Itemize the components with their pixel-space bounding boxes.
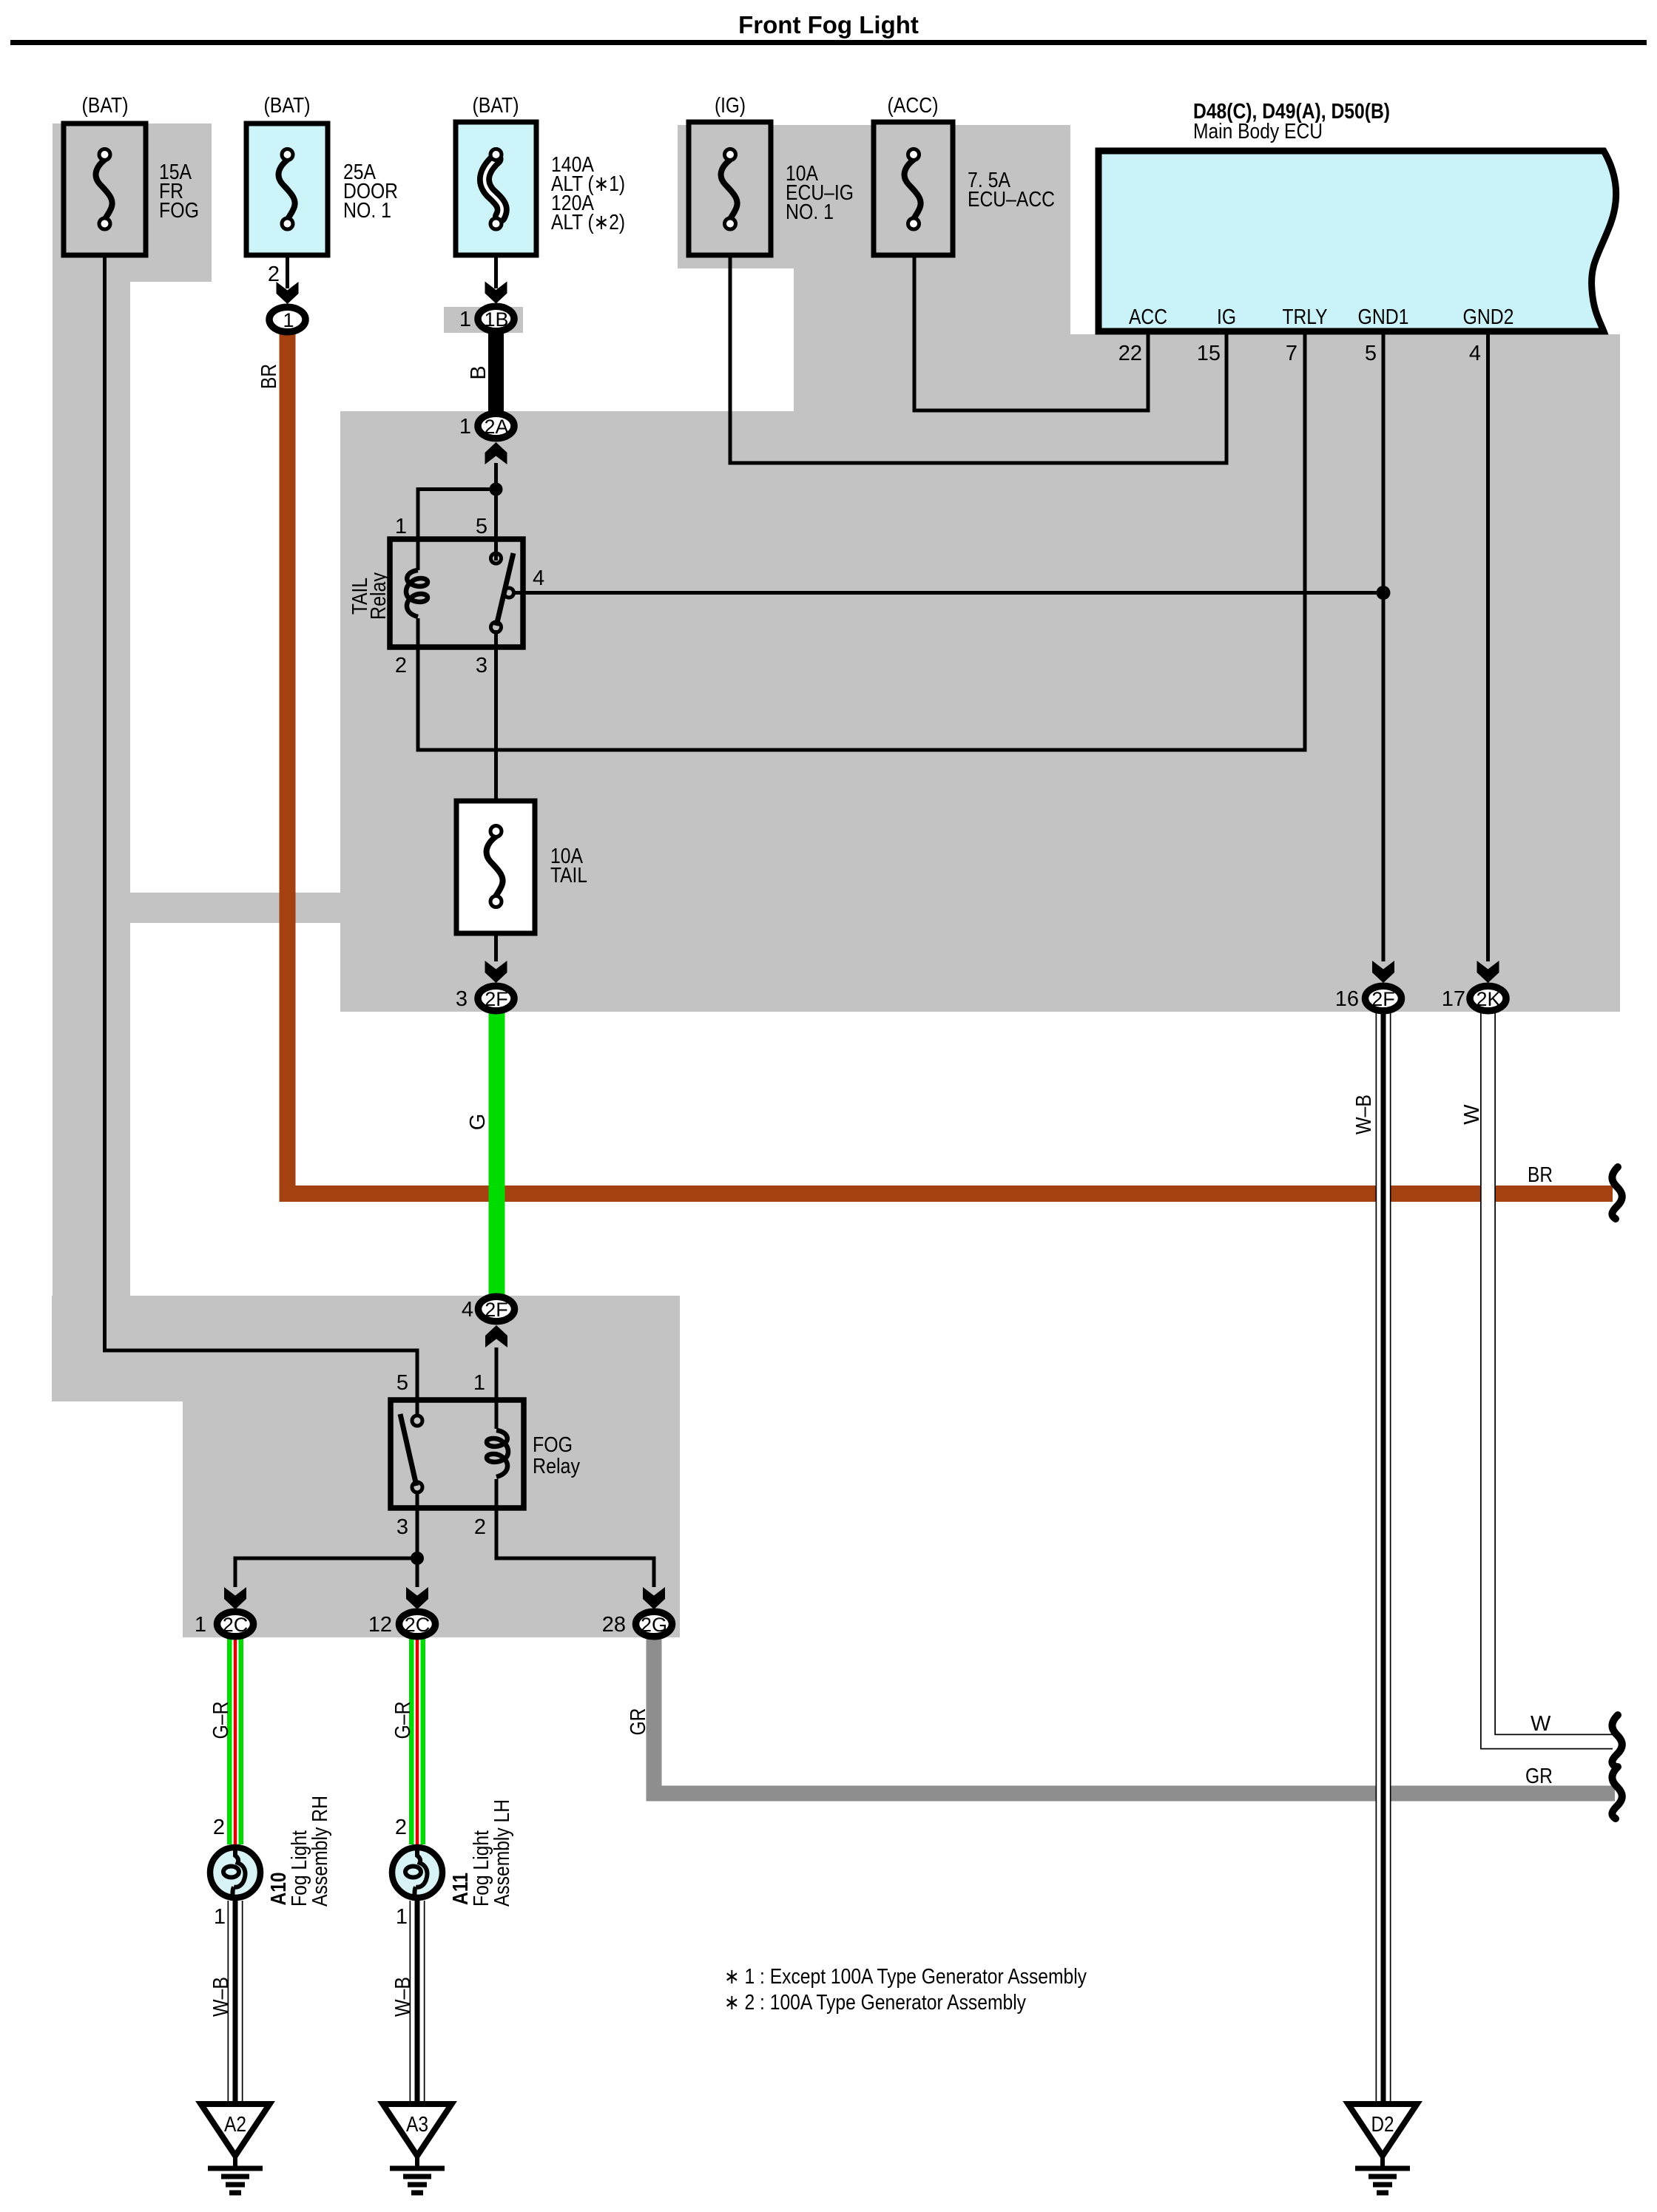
ground D2 [1349,2104,1417,2193]
svg-text:∗ 2 : 100A Type Generator Asse: ∗ 2 : 100A Type Generator Assembly [724,1991,1026,2015]
gray region: below notch right part [794,268,1070,411]
svg-text:(BAT): (BAT) [264,94,311,118]
svg-text:2F: 2F [485,1299,508,1321]
TAIL relay coil [406,570,428,617]
wire: 10A TAIL fuse to 3 2F [494,928,498,961]
title rule [10,40,1647,45]
fuse F4 10A ECU-IG NO.1 [689,94,854,255]
arrow out of connector 2A [485,442,507,464]
arrow into connector 16 2F [1372,961,1394,983]
svg-text:W–B: W–B [209,1977,233,2017]
svg-text:2C: 2C [405,1614,431,1636]
FOG relay switch blade [400,1414,416,1486]
wire B: 1B to 2A thick black [488,333,504,412]
wire: FOG relay pin3 to junction to 1 2C [235,1492,417,1587]
ground A3 [383,2104,452,2193]
svg-text:W: W [1531,1712,1551,1736]
svg-text:5: 5 [396,1371,408,1395]
svg-text:NO. 1: NO. 1 [786,200,834,224]
FOG relay switch contact top [412,1416,422,1426]
wire: TAIL relay pin4 to GND1 junction [513,591,1383,595]
svg-text:(BAT): (BAT) [473,94,519,118]
wire GR: 28 2G to right break [654,1638,1615,1793]
svg-text:GND2: GND2 [1463,305,1514,329]
svg-text:IG: IG [1217,305,1236,329]
svg-text:2C: 2C [223,1614,249,1636]
wire: TAIL relay pin2 to ECU TRLY pin7 [418,334,1305,750]
arrow into connector 1 [277,282,299,304]
wire W-B: fog light RH to ground A2 [228,1901,243,2104]
gray region: central relay block [340,411,1620,1012]
gray region: connector band left [130,893,340,923]
svg-text:12: 12 [368,1613,392,1637]
wire: ECU GND1 pin5 down to 16 2F [1382,334,1386,961]
svg-text:16: 16 [1335,987,1359,1011]
svg-text:22: 22 [1118,342,1142,365]
svg-text:BR: BR [257,364,281,389]
fuse F1 15A FR FOG [64,94,199,255]
gray band behind 1B connector [444,307,523,333]
relay K2 FOG Relay [391,1371,580,1539]
connector 2F pin3 oval [478,986,514,1011]
wire: junction branch to TAIL relay pin1 coil [418,490,496,571]
svg-text:GR: GR [1525,1765,1553,1788]
TAIL relay switch contact top [491,553,502,564]
svg-text:Relay: Relay [533,1455,580,1478]
svg-text:A2: A2 [224,2113,246,2137]
fuse F2 25A DOOR NO.1 [246,94,398,255]
connector 2C pin12 oval [399,1611,436,1637]
svg-text:3: 3 [396,1515,408,1539]
wire G: 3 2F to 4 2F green [489,1012,505,1295]
svg-text:1B: 1B [484,308,508,331]
wire G-R: 1 2C to fog light RH [227,1638,243,1844]
arrow into connector 17 2K [1477,961,1499,983]
wire: ECU GND2 pin4 down to 17 2K [1486,334,1490,961]
svg-text:4: 4 [1469,342,1481,365]
svg-text:1: 1 [395,515,407,538]
svg-text:1: 1 [459,415,471,439]
wire W-B: 16 2F to ground D2 [1376,1012,1391,2104]
wire: 4 2F to FOG relay pin1 coil [495,1347,499,1429]
connector 2A oval [478,413,514,439]
ground A2 [201,2104,270,2193]
svg-text:∗ 1 : Except 100A Type Generat: ∗ 1 : Except 100A Type Generator Assembl… [724,1965,1087,1989]
svg-text:(BAT): (BAT) [82,94,129,118]
break symbol BR [1612,1167,1621,1219]
svg-text:1: 1 [473,1371,485,1395]
svg-text:2: 2 [213,1816,225,1839]
svg-text:Main Body ECU: Main Body ECU [1193,120,1323,143]
svg-text:FOG: FOG [533,1433,573,1457]
svg-text:1: 1 [459,308,471,331]
svg-text:W: W [1460,1104,1484,1125]
svg-text:17: 17 [1442,987,1465,1011]
svg-text:2: 2 [395,654,407,677]
svg-text:7: 7 [1286,342,1297,365]
svg-text:G: G [466,1114,490,1131]
svg-text:4: 4 [533,566,544,590]
connector 2F pin16 oval [1366,986,1402,1011]
fog light A11 assembly LH [392,1799,514,1929]
junction dot: FOG relay pin3 branch [411,1552,424,1565]
gray region: fog relay block upper [52,1296,680,1401]
svg-text:TRLY: TRLY [1283,305,1328,329]
wire W: 17 2K to right break (white wire) [1488,1012,1614,1742]
svg-text:ACC: ACC [1129,305,1167,329]
wire: FOG relay pin2 to 28 2G [496,1479,654,1587]
wire: 2A to junction to TAIL relay pin5 [494,463,498,561]
svg-text:GR: GR [627,1708,650,1736]
WIRES-BLACK [105,255,1488,1587]
arrow out of connector 2F pin4 [485,1325,507,1347]
gray region: top band IG/ACC fuses [678,125,1070,268]
gray region: fog relay block lower [183,1401,680,1637]
svg-text:Front Fog Light: Front Fog Light [738,11,919,38]
wire: ACC fuse to ECU ACC pin22 [914,255,1148,410]
svg-text:B: B [467,365,490,379]
svg-text:TAIL: TAIL [550,864,587,887]
break symbol W [1612,1715,1621,1767]
wire W-B: fog light LH to ground A3 [410,1901,425,2104]
svg-text:5: 5 [1365,342,1377,365]
svg-text:NO. 1: NO. 1 [343,199,391,223]
arrow into connector 28 2G [643,1587,665,1609]
arrow into connector 12 2C [406,1587,428,1609]
svg-text:G–R: G–R [391,1702,415,1739]
svg-text:Assembly LH: Assembly LH [490,1799,514,1907]
svg-text:1: 1 [283,309,294,331]
wire: 140A ALT fuse to connector 1B [494,255,498,288]
svg-text:15: 15 [1197,342,1221,365]
svg-text:ALT (∗2): ALT (∗2) [551,211,625,234]
svg-text:Relay: Relay [367,572,391,620]
svg-text:2K: 2K [1476,988,1500,1010]
svg-text:28: 28 [602,1613,626,1637]
svg-text:D2: D2 [1371,2113,1394,2137]
junction dot: pin4-GND1 [1377,586,1391,600]
connector 1B oval [478,306,514,331]
svg-text:Assembly RH: Assembly RH [308,1796,332,1907]
svg-text:3: 3 [456,987,468,1011]
svg-text:ECU–ACC: ECU–ACC [968,188,1055,212]
wire BR: connector 1 to right break [288,333,1613,1194]
svg-text:2: 2 [268,263,280,286]
fuse F5 7.5A ECU-ACC [874,94,1055,255]
connector 2C pin1 oval [217,1611,254,1637]
wire: 25A DOOR fuse to connector 1 [286,255,289,288]
svg-text:5: 5 [476,515,487,538]
FOG relay switch contact bottom [412,1482,422,1492]
connector 2G oval [636,1611,672,1637]
break symbol GR [1612,1767,1621,1819]
TAIL relay switch contact bottom [491,622,502,632]
fog light A10 assembly RH [210,1796,332,1929]
wire: IG fuse to ECU IG pin15 [730,255,1226,463]
wire: junction to 12 2C [416,1558,419,1587]
fuse F6 10A TAIL [456,801,587,933]
arrow into connector 3 2F [485,961,507,983]
svg-text:GND1: GND1 [1358,305,1409,329]
svg-text:3: 3 [476,654,487,677]
svg-text:2: 2 [474,1515,486,1539]
junction dot: 2A branch [490,483,503,496]
GRAY BACKGROUND REGIONS [52,124,1620,1637]
svg-text:(ACC): (ACC) [888,94,939,118]
svg-text:2F: 2F [1371,988,1395,1010]
connector 2F pin4 oval [479,1296,515,1322]
svg-text:1: 1 [396,1905,408,1929]
svg-text:1: 1 [214,1905,226,1929]
svg-text:G–R: G–R [209,1702,233,1739]
svg-text:2A: 2A [484,416,508,438]
FOG relay coil [487,1430,508,1477]
relay K1 TAIL Relay [348,515,544,677]
wire G-R: 12 2C to fog light LH [409,1638,425,1844]
ECU U1 Main Body ECU [1099,100,1616,365]
svg-text:W–B: W–B [391,1977,415,2017]
gray region: under ECU [1070,334,1620,411]
svg-text:FOG: FOG [159,199,199,223]
connector 1 oval [269,307,306,332]
wire: 15A FR FOG fuse to FOG relay pin5 [105,255,418,1416]
TAIL relay switch blade [496,553,513,626]
gray region: left harness column [53,282,130,1296]
svg-text:1: 1 [195,1613,206,1637]
gray region: 15A FR FOG fuse block [53,124,212,282]
TAIL relay pin4 contact [504,588,514,598]
svg-text:(IG): (IG) [715,94,746,118]
svg-text:2G: 2G [641,1614,667,1636]
fuse F3 140A/120A ALT fusible link [456,94,625,255]
svg-text:2: 2 [395,1816,407,1839]
svg-text:BR: BR [1528,1163,1553,1187]
svg-text:4: 4 [462,1298,473,1322]
svg-text:A3: A3 [406,2113,428,2137]
svg-text:W–B: W–B [1352,1095,1376,1134]
svg-text:2F: 2F [485,988,508,1010]
connector 2K oval [1470,986,1506,1011]
wire: TAIL relay pin3 to 10A TAIL fuse [494,630,498,806]
arrow into connector 1 2C [224,1587,246,1609]
arrow into connector 1B [485,282,507,304]
